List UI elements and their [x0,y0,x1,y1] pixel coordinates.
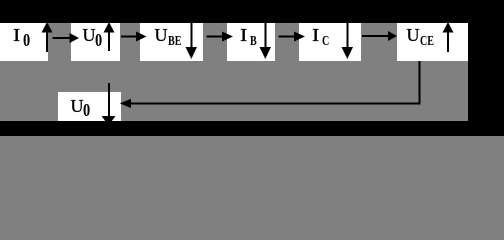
feedback wire vertical from UCE down [419,61,421,105]
label IC [312,26,319,44]
wire arrow U0 to UBE [121,32,147,42]
block UCE (box 6) [397,23,468,61]
label I0 [13,26,20,44]
block I0 (input current box) [0,23,48,61]
bottom black band [0,121,504,136]
label UBE [155,26,168,44]
block U0 output (second row feedback box) [58,92,121,121]
label U0 [83,26,96,44]
top black band [0,0,504,23]
block U0 (box 2) [71,23,120,61]
right black band [468,0,504,136]
label U0 feedback [71,97,84,115]
wire arrow IC to UCE [362,31,397,41]
wire arrow I0 to U0 [53,33,80,43]
label UCE [407,26,420,44]
block UBE (box 3) [140,23,203,61]
label IB [240,26,247,44]
feedback arrowhead into U0 box [120,99,131,108]
arrow down through feedback U0 box [102,83,116,126]
arrow up in block U0 [104,22,115,51]
wire arrow IB to IC [279,32,306,42]
arrow down in block IB [260,23,272,59]
arrow up in block UCE [443,22,454,52]
arrow up in block I0 [42,22,53,52]
block IC (box 5) [299,23,361,61]
wire arrow UBE to IB [207,32,234,42]
feedback wire horizontal to U0 box [130,103,420,105]
arrow down in block IC [342,23,354,59]
block IB (box 4) [227,23,275,61]
arrow down in block UBE [186,23,198,59]
